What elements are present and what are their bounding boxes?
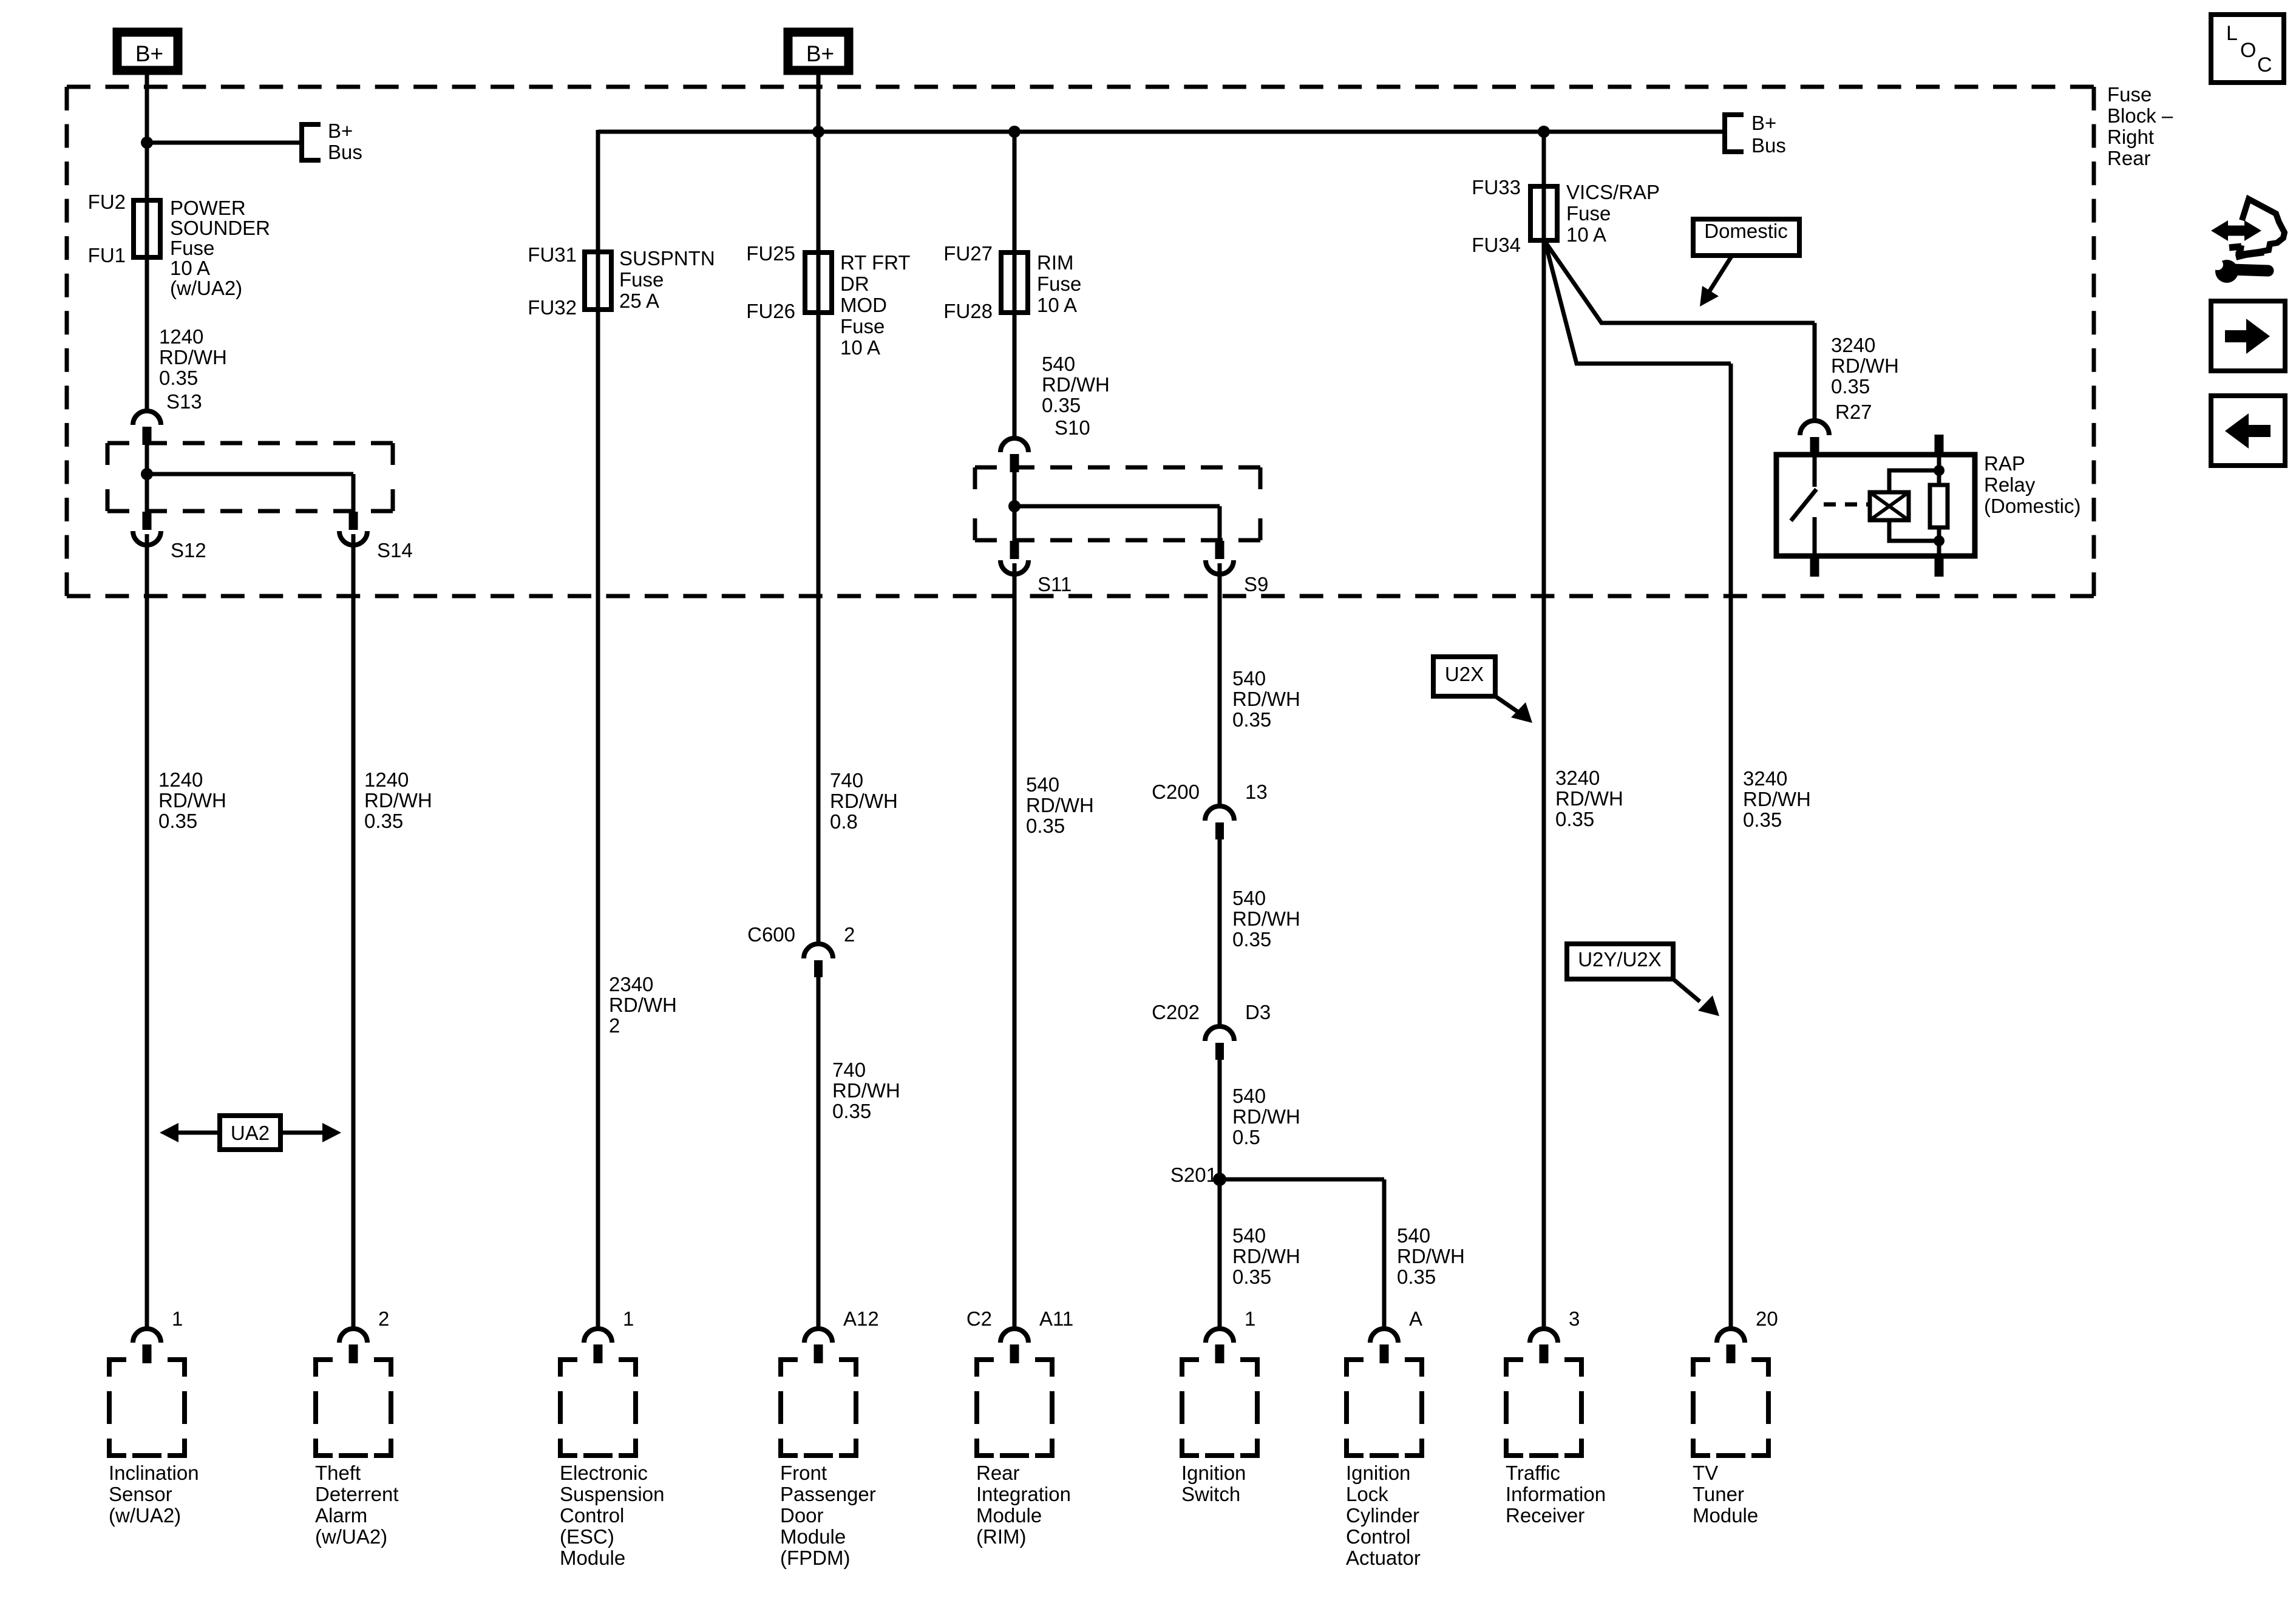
- wire S14 drop inside joint connector: [352, 474, 356, 512]
- svg-text:S9: S9: [1244, 573, 1268, 595]
- svg-text:3240: 3240: [1555, 767, 1600, 789]
- svg-text:3240: 3240: [1831, 334, 1875, 356]
- module box Inclination: [109, 1360, 126, 1377]
- svg-text:0.35: 0.35: [1042, 394, 1081, 416]
- svg-text:540: 540: [1042, 353, 1075, 375]
- splice S9 out of joint connector: [1215, 541, 1224, 559]
- svg-text:RIM: RIM: [1037, 251, 1074, 274]
- wire down to Ignition Lock Cylinder: [1382, 1179, 1387, 1329]
- svg-text:C202: C202: [1152, 1001, 1200, 1023]
- svg-text:540: 540: [1397, 1224, 1430, 1247]
- wire S9 drop inside joint connector: [1218, 506, 1222, 541]
- wire inside joint connector (wire 1): [145, 445, 149, 512]
- svg-text:RD/WH: RD/WH: [1831, 354, 1899, 377]
- svg-text:Cylinder: Cylinder: [1346, 1504, 1419, 1527]
- svg-text:RD/WH: RD/WH: [364, 789, 432, 812]
- svg-text:RD/WH: RD/WH: [1232, 688, 1300, 710]
- B+ Bus terminal (left): [302, 124, 321, 160]
- svg-text:FU1: FU1: [88, 244, 126, 266]
- wire C200 down to C202: [1218, 839, 1222, 1026]
- relay switch blade: [1791, 489, 1816, 521]
- svg-text:Fuse: Fuse: [2107, 83, 2152, 106]
- svg-text:740: 740: [830, 769, 863, 792]
- node junction resistor top: [1934, 465, 1944, 476]
- wire fuse FU25 down to C600: [817, 132, 821, 944]
- node junction bus/RIM wire: [1008, 126, 1021, 138]
- node junction bus/VICS fuse wire: [1538, 126, 1550, 138]
- svg-text:Switch: Switch: [1181, 1483, 1240, 1505]
- LOC reference box: [2211, 15, 2284, 83]
- svg-text:1: 1: [1245, 1307, 1255, 1330]
- svg-text:Tuner: Tuner: [1693, 1483, 1744, 1505]
- Domestic tag arrow: [1709, 256, 1732, 292]
- svg-text:0.35: 0.35: [158, 810, 197, 832]
- svg-text:C200: C200: [1152, 781, 1200, 803]
- wire C202 down to S201 and Ignition Switch: [1218, 1060, 1222, 1329]
- svg-text:Ignition: Ignition: [1181, 1462, 1246, 1484]
- svg-text:Sensor: Sensor: [109, 1483, 172, 1505]
- connector pin arc at Rear: [1000, 1329, 1028, 1343]
- svg-text:MOD: MOD: [840, 294, 887, 316]
- splice S13 into joint connector: [133, 411, 161, 425]
- svg-text:Relay: Relay: [1984, 473, 2036, 496]
- node junction on wire 1 at B+ bus tap: [141, 137, 153, 149]
- B+ power box (center): [788, 32, 849, 70]
- svg-text:Module: Module: [780, 1525, 846, 1548]
- svg-text:Front: Front: [780, 1462, 827, 1484]
- svg-text:RD/WH: RD/WH: [1026, 794, 1094, 816]
- svg-text:0.35: 0.35: [1555, 808, 1594, 830]
- wire C600 down to FPDM: [817, 977, 821, 1329]
- service icon: double arrow: [2224, 226, 2248, 236]
- fuse block dashed border: [67, 85, 2094, 89]
- svg-text:RD/WH: RD/WH: [1232, 1105, 1300, 1128]
- svg-text:S12: S12: [171, 539, 206, 561]
- svg-text:RAP: RAP: [1984, 452, 2025, 475]
- svg-text:FU33: FU33: [1472, 176, 1521, 198]
- forward arrow box: [2211, 301, 2285, 371]
- wire fan: FU34 to TV tuner feed: [1545, 242, 1731, 364]
- svg-text:FU28: FU28: [943, 300, 993, 322]
- svg-text:0.35: 0.35: [1831, 375, 1870, 398]
- relay resistor: [1930, 485, 1948, 527]
- svg-text:(FPDM): (FPDM): [780, 1547, 850, 1569]
- connector pin arc at Inclination: [133, 1329, 161, 1343]
- svg-text:RD/WH: RD/WH: [1232, 907, 1300, 930]
- wire to B+ Bus terminal (left): [147, 141, 302, 145]
- connector pin arc at Theft: [339, 1329, 367, 1343]
- svg-text:1: 1: [172, 1307, 183, 1330]
- joint connector (left) dashed box: [107, 441, 393, 446]
- svg-text:O: O: [2240, 39, 2256, 62]
- svg-text:TV: TV: [1693, 1462, 1718, 1484]
- svg-text:Fuse: Fuse: [170, 237, 214, 259]
- svg-text:Actuator: Actuator: [1346, 1547, 1421, 1569]
- svg-text:Alarm: Alarm: [315, 1504, 367, 1527]
- module box Rear: [977, 1360, 994, 1377]
- splice S11 out of joint connector: [1010, 541, 1019, 559]
- svg-text:RD/WH: RD/WH: [1042, 373, 1110, 396]
- U2X tag arrow: [1495, 696, 1519, 713]
- module box Electronic: [560, 1360, 577, 1377]
- svg-text:B+: B+: [806, 41, 834, 66]
- RAP relay box: [1776, 455, 1975, 556]
- svg-text:10 A: 10 A: [1566, 223, 1606, 246]
- svg-text:Control: Control: [1346, 1525, 1410, 1548]
- in-line connector C200 pin 13: [1205, 806, 1234, 821]
- svg-text:A11: A11: [1039, 1307, 1073, 1330]
- svg-text:0.35: 0.35: [832, 1100, 871, 1122]
- svg-text:(w/UA2): (w/UA2): [109, 1504, 181, 1527]
- svg-text:FU2: FU2: [88, 191, 126, 213]
- svg-text:B+: B+: [328, 120, 353, 142]
- node junction bus/FPDM wire: [812, 126, 824, 138]
- svg-text:(RIM): (RIM): [976, 1525, 1026, 1548]
- svg-text:Rear: Rear: [2107, 147, 2151, 169]
- svg-text:Information: Information: [1506, 1483, 1606, 1505]
- relay switch lower pin: [1813, 517, 1817, 556]
- svg-text:0.35: 0.35: [159, 367, 198, 389]
- svg-text:Rear: Rear: [976, 1462, 1020, 1484]
- svg-text:S14: S14: [377, 539, 413, 561]
- svg-text:RD/WH: RD/WH: [830, 790, 898, 812]
- svg-text:Ignition: Ignition: [1346, 1462, 1410, 1484]
- wire S201 branch to Ignition Lock: [1220, 1178, 1384, 1182]
- svg-text:U2Y/U2X: U2Y/U2X: [1578, 948, 1662, 971]
- wire 540 RD/WH down to RIM: [1013, 563, 1017, 1329]
- UA2 option box: [220, 1116, 280, 1150]
- svg-text:B+: B+: [135, 41, 163, 66]
- svg-text:1240: 1240: [364, 768, 409, 791]
- svg-text:VICS/RAP: VICS/RAP: [1566, 181, 1660, 203]
- wire fan: FU34 to RAP relay feed: [1545, 242, 1815, 323]
- svg-text:Control: Control: [560, 1504, 624, 1527]
- wire S9 down to C200: [1218, 563, 1222, 806]
- svg-text:L: L: [2226, 22, 2238, 45]
- svg-text:Receiver: Receiver: [1506, 1504, 1584, 1527]
- wire FU1 down to splice S13: [145, 257, 149, 412]
- svg-text:C: C: [2257, 53, 2272, 76]
- svg-text:1: 1: [623, 1307, 634, 1330]
- svg-text:RD/WH: RD/WH: [1397, 1245, 1465, 1267]
- svg-text:3: 3: [1569, 1307, 1580, 1330]
- joint connector (middle) dashed box: [975, 466, 1260, 470]
- B+ Bus terminal (right): [1725, 115, 1744, 152]
- svg-text:S201: S201: [1170, 1164, 1217, 1186]
- svg-text:Traffic: Traffic: [1506, 1462, 1560, 1484]
- module box Ignition: [1347, 1360, 1364, 1377]
- svg-text:Deterrent: Deterrent: [315, 1483, 399, 1505]
- svg-text:A: A: [1409, 1307, 1422, 1330]
- svg-text:Module: Module: [560, 1547, 625, 1569]
- in-line connector C202 pin D3: [1205, 1026, 1234, 1041]
- svg-text:1240: 1240: [159, 325, 203, 348]
- svg-text:Right: Right: [2107, 126, 2154, 148]
- wire inside middle joint connector: [1013, 472, 1017, 541]
- svg-text:S13: S13: [166, 390, 202, 413]
- node junction resistor bottom: [1934, 535, 1944, 546]
- svg-text:C2: C2: [966, 1307, 992, 1330]
- connector pin arc at TV: [1717, 1329, 1745, 1343]
- wire bus corner down to fuse FU31 (ESC feed): [596, 130, 600, 1329]
- svg-text:S11: S11: [1038, 573, 1072, 595]
- module box Ignition: [1182, 1360, 1199, 1377]
- svg-text:C600: C600: [747, 923, 795, 946]
- svg-text:D3: D3: [1245, 1001, 1271, 1023]
- wire bus down through fuse FU27 to splice S10: [1013, 132, 1017, 439]
- connector pin arc at Front: [804, 1329, 832, 1343]
- module box Theft: [316, 1360, 333, 1377]
- Domestic tag box: [1693, 219, 1799, 256]
- splice S14 out of joint connector: [349, 512, 358, 530]
- relay coil bottom link: [1889, 520, 1939, 541]
- wire down to TV Tuner Module: [1729, 364, 1733, 1329]
- svg-text:S10: S10: [1055, 416, 1090, 439]
- splice R27 into RAP relay: [1800, 421, 1829, 435]
- module box TV: [1693, 1360, 1710, 1377]
- U2Y/U2X tag arrow: [1673, 979, 1700, 1002]
- svg-text:(w/UA2): (w/UA2): [315, 1525, 387, 1548]
- svg-text:Module: Module: [976, 1504, 1042, 1527]
- relay right pin: [1937, 455, 1941, 485]
- svg-text:RD/WH: RD/WH: [1555, 787, 1623, 810]
- wire junction to S9 drop: [1014, 504, 1220, 509]
- svg-text:0.35: 0.35: [1232, 928, 1271, 951]
- connector pin arc at Electronic: [584, 1329, 612, 1343]
- splice S10 into joint connector: [1000, 438, 1028, 452]
- relay coil box: [1870, 492, 1909, 520]
- svg-text:RT FRT: RT FRT: [840, 251, 911, 274]
- node junction S11/S9 split: [1008, 500, 1021, 512]
- svg-text:0.35: 0.35: [1397, 1266, 1436, 1288]
- svg-text:RD/WH: RD/WH: [159, 346, 227, 368]
- svg-text:Domestic: Domestic: [1704, 220, 1788, 242]
- relay dashed actuation link: [1824, 503, 1869, 507]
- service icon: wrench: [2215, 260, 2238, 283]
- UA2 option arrow left: [178, 1131, 220, 1135]
- svg-text:Theft: Theft: [315, 1462, 361, 1484]
- svg-text:2340: 2340: [609, 973, 653, 995]
- svg-text:B+: B+: [1751, 112, 1776, 134]
- svg-text:540: 540: [1026, 773, 1059, 796]
- svg-text:2: 2: [844, 923, 855, 946]
- B+ bus wire (horizontal): [598, 130, 1725, 134]
- relay switch pin (left): [1813, 456, 1817, 487]
- svg-text:1240: 1240: [158, 768, 203, 791]
- svg-text:Passenger: Passenger: [780, 1483, 876, 1505]
- svg-text:SOUNDER: SOUNDER: [170, 217, 270, 239]
- svg-text:A12: A12: [843, 1307, 879, 1330]
- svg-text:FU27: FU27: [943, 242, 993, 265]
- svg-text:540: 540: [1232, 1085, 1266, 1107]
- svg-text:Fuse: Fuse: [619, 268, 664, 291]
- svg-text:RD/WH: RD/WH: [609, 994, 677, 1016]
- svg-text:2: 2: [378, 1307, 389, 1330]
- fuse FU27/FU28 RIM 10A: [1001, 253, 1028, 313]
- svg-text:13: 13: [1245, 781, 1268, 803]
- svg-text:0.35: 0.35: [1232, 1266, 1271, 1288]
- svg-text:Fuse: Fuse: [840, 315, 885, 337]
- svg-text:Block –: Block –: [2107, 104, 2173, 127]
- svg-text:RD/WH: RD/WH: [158, 789, 226, 812]
- svg-text:Fuse: Fuse: [1566, 202, 1611, 225]
- svg-text:RD/WH: RD/WH: [1743, 788, 1811, 810]
- connector pin arc at Ignition: [1370, 1329, 1398, 1343]
- svg-text:0.35: 0.35: [364, 810, 403, 832]
- svg-text:FU26: FU26: [746, 300, 795, 322]
- svg-text:0.35: 0.35: [1232, 708, 1271, 731]
- svg-text:DR: DR: [840, 273, 869, 295]
- connector pin arc at Traffic: [1530, 1329, 1558, 1343]
- wire 1240 RD/WH down to Inclination Sensor: [145, 534, 149, 1329]
- svg-text:(ESC): (ESC): [560, 1525, 614, 1548]
- svg-text:Bus: Bus: [1751, 134, 1786, 157]
- wire B+ (left) down to fuse FU2: [145, 70, 149, 203]
- wire bus down through fuse FU33 to Traffic Information Receiver: [1542, 132, 1546, 1329]
- wire B+ (center) down through fuse block: [817, 70, 821, 132]
- svg-text:Lock: Lock: [1346, 1483, 1388, 1505]
- svg-text:2: 2: [609, 1014, 620, 1037]
- svg-text:Integration: Integration: [976, 1483, 1071, 1505]
- svg-text:3240: 3240: [1743, 767, 1787, 790]
- svg-text:(w/UA2): (w/UA2): [170, 277, 242, 299]
- svg-text:FU32: FU32: [528, 296, 577, 319]
- UA2 option arrow right: [280, 1131, 322, 1135]
- svg-text:0.35: 0.35: [1026, 815, 1065, 837]
- svg-text:10 A: 10 A: [840, 336, 880, 359]
- svg-text:SUSPNTN: SUSPNTN: [619, 247, 715, 269]
- svg-text:FU25: FU25: [746, 242, 795, 265]
- service icon: part outline: [2236, 199, 2284, 257]
- svg-text:UA2: UA2: [231, 1122, 270, 1144]
- svg-text:20: 20: [1756, 1307, 1778, 1330]
- module box Traffic: [1506, 1360, 1523, 1377]
- svg-text:Suspension: Suspension: [560, 1483, 664, 1505]
- svg-text:740: 740: [832, 1059, 866, 1081]
- U2X tag box: [1433, 657, 1495, 696]
- svg-text:U2X: U2X: [1445, 663, 1484, 685]
- fuse FU2/FU1 POWER SOUNDER 10A: [145, 203, 149, 257]
- node junction S12/S14 split: [141, 468, 153, 480]
- svg-text:Door: Door: [780, 1504, 824, 1527]
- svg-text:Module: Module: [1693, 1504, 1758, 1527]
- fuse FU25/FU26 RT FRT DR MOD 10A: [805, 253, 832, 313]
- svg-text:Inclination: Inclination: [109, 1462, 199, 1484]
- svg-text:540: 540: [1232, 667, 1266, 690]
- wire 1240 RD/WH down to Theft Deterrent Alarm: [352, 534, 356, 1329]
- wire down to R27 / RAP relay: [1813, 323, 1817, 422]
- svg-text:0.35: 0.35: [1743, 808, 1782, 831]
- svg-text:25 A: 25 A: [619, 290, 659, 312]
- svg-text:RD/WH: RD/WH: [1232, 1245, 1300, 1267]
- svg-text:FU31: FU31: [528, 243, 577, 266]
- svg-text:0.8: 0.8: [830, 810, 858, 833]
- svg-text:RD/WH: RD/WH: [832, 1079, 900, 1102]
- back arrow box: [2211, 396, 2285, 466]
- wire junction to S14 drop: [147, 472, 353, 476]
- B+ power box (left): [117, 32, 178, 70]
- fuse FU33/FU34 VICS/RAP 10A: [1530, 186, 1557, 240]
- svg-text:10 A: 10 A: [1037, 294, 1077, 316]
- in-line connector C600 pin 2: [804, 944, 833, 958]
- U2Y/U2X tag box: [1567, 944, 1673, 979]
- relay coil top link: [1889, 470, 1939, 492]
- svg-text:540: 540: [1232, 887, 1266, 909]
- svg-text:POWER: POWER: [170, 197, 246, 219]
- svg-text:FU34: FU34: [1472, 234, 1521, 256]
- module box Front: [781, 1360, 798, 1377]
- svg-text:Electronic: Electronic: [560, 1462, 648, 1484]
- svg-text:Bus: Bus: [328, 141, 362, 163]
- svg-text:Fuse: Fuse: [1037, 273, 1081, 295]
- connector pin arc at Ignition: [1206, 1329, 1234, 1343]
- svg-text:R27: R27: [1835, 401, 1872, 423]
- fuse FU31/FU32 SUSPNTN 25A: [585, 252, 611, 310]
- splice S12 out of joint connector: [143, 512, 152, 530]
- svg-text:0.5: 0.5: [1232, 1126, 1260, 1148]
- svg-text:10 A: 10 A: [170, 257, 210, 279]
- splice node S201: [1213, 1173, 1226, 1186]
- svg-text:540: 540: [1232, 1224, 1266, 1247]
- svg-text:(Domestic): (Domestic): [1984, 495, 2081, 517]
